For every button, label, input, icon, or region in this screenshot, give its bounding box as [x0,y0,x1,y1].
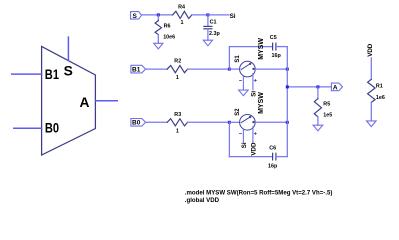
junction R3/C6/S2 [228,121,231,124]
port flag B1 [131,65,146,73]
S2 minus control stub [242,129,244,142]
wire R6 top lead [157,15,159,21]
junction R2/C5/S1 [228,68,231,71]
resistor R4 [173,11,192,18]
svg-text:R6: R6 [164,24,171,30]
svg-text:R1: R1 [376,83,383,89]
wire up to C5 branch [228,47,230,70]
svg-text:.global VDD: .global VDD [185,197,220,204]
svg-text:VDD: VDD [367,43,374,57]
wire C5 right to bus [276,46,287,48]
wire node to S2 left terminal [229,121,239,123]
svg-text:S: S [64,64,73,79]
svg-text:R2: R2 [174,59,181,65]
junction bus/A wire [286,85,289,88]
junction S2/bus [286,121,289,124]
svg-text:Si: Si [230,13,236,20]
port flag S [131,12,142,20]
wire B1 flag to R2 [146,68,168,70]
wire C6 right to bus [276,156,287,158]
svg-text:16p: 16p [268,163,278,169]
wire R5 to ground [317,117,319,125]
ground under R6 [154,43,163,49]
capacitor C6 [272,153,274,160]
port flag A [331,83,342,91]
svg-text:1: 1 [176,128,179,134]
S2 minus sign [240,133,242,135]
resistor R2 [167,66,187,73]
svg-text:R5: R5 [323,101,330,107]
wire B1 input to mux [12,73,42,75]
capacitor C5 [272,43,274,50]
ground under S1 [239,90,249,96]
wire node to S1 left terminal [229,68,239,70]
wire R5 top lead [317,87,319,99]
svg-text:S2: S2 [235,108,241,116]
switch S1 [240,61,256,77]
wire down to C6 branch [228,122,230,156]
junction R4/C1/Si [206,13,209,16]
svg-text:B0: B0 [132,120,141,127]
resistor R6 [155,21,161,35]
svg-text:1: 1 [181,20,184,26]
switch S2 [240,115,256,131]
svg-text:MYSW: MYSW [258,92,265,114]
resistor R3 [167,119,187,126]
svg-text:1: 1 [176,75,179,81]
wire S1 right to bus [255,68,287,70]
svg-text:A: A [333,84,338,91]
wire bus to A flag [287,86,331,88]
junction S1/bus [286,68,289,71]
svg-text:MYSW: MYSW [258,38,265,60]
wire to Si label [208,14,229,16]
S1 minus sign [240,79,242,81]
svg-text:B0: B0 [45,121,59,136]
bus wire C5/S1/A/S2/C6 [286,47,288,157]
junction S/R4/R6 [157,13,160,16]
wire C1 to ground [207,29,209,40]
svg-text:C5: C5 [270,35,277,41]
svg-text:Si: Si [241,142,248,148]
svg-text:B1: B1 [132,67,141,74]
svg-text:S1: S1 [235,55,241,63]
wire R6 to ground [157,35,159,44]
svg-text:10e6: 10e6 [163,34,175,40]
ground under R5 [313,125,323,131]
S1 plus control stub [252,74,254,90]
wire C6 left [229,156,272,158]
mux symbol body [42,46,96,155]
svg-text:1e6: 1e6 [376,95,385,101]
wire S input to mux [67,37,69,61]
wire S2 right to bus [255,121,287,123]
capacitor C1 [204,25,212,27]
ground under C1 [203,40,212,46]
S2 plus control stub [252,127,254,142]
S1 minus control stub [242,76,244,90]
wire R1 to ground [370,102,372,121]
wire A output of mux [95,100,117,102]
junction A/R5 [316,85,319,88]
wire R4 to node Si [192,14,208,16]
resistor R1 [368,79,376,102]
svg-text:R4: R4 [178,4,185,10]
S2 plus sign [254,133,256,135]
svg-text:Si: Si [250,91,257,97]
svg-text:16p: 16p [272,53,282,59]
wire B0 input to mux [14,127,42,129]
wire C1 top lead [207,15,209,26]
svg-text:.model MYSW SW(Ron=5 Roff=5Meg: .model MYSW SW(Ron=5 Roff=5Meg Vt=2.7 Vh… [185,189,333,196]
wire C5 left [229,46,272,48]
wire S flag to node Si-row [142,14,173,16]
svg-text:A: A [80,95,90,110]
S1 plus sign [254,79,256,81]
svg-text:C6: C6 [269,145,276,151]
svg-text:VDD: VDD [250,142,257,156]
svg-text:2.3p: 2.3p [209,31,220,37]
port flag B0 [131,119,146,127]
svg-text:B1: B1 [45,67,59,82]
svg-text:C1: C1 [210,19,217,25]
ground under R1 [367,121,377,127]
svg-text:1e5: 1e5 [323,113,332,119]
svg-text:S: S [133,13,138,20]
resistor R5 [314,99,321,117]
wire R2 to node S1 [188,68,230,70]
wire R3 to node S2 [188,121,230,123]
wire B0 flag to R3 [146,121,168,123]
wire VDD to R1 [370,58,372,79]
svg-text:R3: R3 [174,112,181,118]
